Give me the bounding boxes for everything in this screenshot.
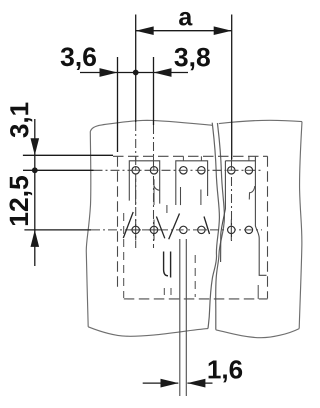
contact box 3 right edge with funnel jog and foot: [255, 157, 266, 276]
pad center dash bottom 4: [198, 229, 204, 231]
dimension 3,1 arrow down: [31, 138, 40, 155]
contact box 3 left edge with funnel jog: [221, 161, 226, 262]
pad center dash top 2: [151, 167, 157, 171]
connector housing dashed outline right edge: [267, 156, 269, 298]
contact box 1: [129, 161, 159, 204]
center line pad column 1: [135, 122, 137, 248]
pad bottom 6: [245, 226, 252, 233]
extension line y155: [23, 154, 113, 156]
pad top 6: [245, 167, 252, 174]
dimension 3,8 extension line: [153, 57, 155, 125]
inner dashed vertical mid b: [170, 288, 172, 299]
extension line y230: [24, 229, 91, 231]
pad bottom 5: [228, 226, 235, 233]
dimension 1,6 arrow right: [187, 379, 205, 388]
dimension 3,1 label: [10, 103, 32, 138]
pad center dash bottom 3: [180, 229, 183, 231]
inner dashed vertical mid a: [163, 288, 165, 299]
dimension 12,5 arrow up: [31, 230, 40, 247]
slot line below pad2 with hook: [154, 179, 160, 205]
slot line below pad4: [200, 190, 202, 206]
connector housing dashed outline left edge: [117, 156, 119, 291]
inner dashed vertical pos2: [194, 255, 196, 297]
dimension dot at column 1: [133, 70, 139, 76]
dimension 1,6 line right: [187, 382, 212, 384]
clamp diagonal pos2 right: [204, 217, 210, 235]
clamp diagonal pos1 left: [123, 212, 133, 238]
dimension a line: [136, 30, 232, 32]
pad bottom 4: [198, 226, 205, 233]
tick outline-to-box pad6: [248, 156, 250, 161]
left dimension vertical line: [34, 119, 36, 266]
clamp diagonal V right leg: [169, 214, 180, 240]
crosshair pad bottom 2 horizontal: [149, 229, 159, 231]
pad bottom 3: [180, 226, 187, 233]
dimension 3,6 extension line: [117, 57, 119, 152]
tick outline-to-box pad2: [153, 156, 155, 161]
extension line y170: [23, 169, 94, 171]
crosshair pad bottom 1 horizontal: [131, 229, 142, 231]
pin blade line right 1,6 feature: [185, 239, 187, 396]
pad top 1: [132, 167, 139, 174]
paper sheet left piece left edge: [86, 132, 91, 327]
break line left tear: [208, 123, 219, 329]
dimension a left extension line: [135, 15, 137, 123]
break line right tear: [216, 123, 225, 330]
paper sheet left piece bottom edge: [88, 327, 208, 336]
center line row 2 horizontal: [91, 229, 262, 231]
pad top 4: [198, 167, 205, 174]
pad center dash top 6: [246, 169, 252, 171]
slot hook below pad6: [249, 186, 255, 200]
dimension 12,5 label: [9, 176, 32, 225]
dimension a label: [179, 12, 192, 26]
pad bottom 2: [150, 226, 157, 233]
pad center dash top 4: [198, 169, 204, 171]
dimension 1,6 label: [209, 360, 243, 382]
pad center dash top 5: [228, 167, 234, 171]
tick outline-to-box pad5: [231, 156, 233, 161]
center line row 1 horizontal: [94, 169, 263, 171]
dimension dot left: [32, 167, 38, 173]
inner dash right piece bottom: [257, 285, 259, 299]
dimension a arrow left: [136, 26, 154, 35]
pad top 5: [228, 167, 235, 174]
crosshair pad bottom 5 vertical: [230, 220, 232, 241]
dimension 1,6 line left: [143, 382, 179, 384]
dimension a arrow right: [214, 26, 232, 35]
pin blade line left 1,6 feature: [179, 239, 181, 396]
pad top 3: [180, 167, 187, 174]
U clamp feature: [164, 252, 171, 278]
connector housing dashed outline bottom edge: [124, 298, 268, 300]
dimension 3,8 label: [174, 48, 209, 71]
pad center dash bottom 6: [246, 229, 252, 231]
contact box 2: [176, 161, 208, 205]
paper sheet left piece top edge: [90, 120, 212, 131]
pad center dash top 1: [133, 167, 139, 171]
dimension 1,6 arrow left: [161, 379, 179, 388]
dimension 3,6 label: [61, 47, 96, 70]
connector housing dashed outline top edge: [113, 155, 268, 157]
dimension 3,6 3,8 line: [80, 72, 188, 74]
clamp diagonal V left leg: [156, 217, 164, 239]
crosshair pad bottom 1 vertical: [135, 220, 137, 241]
pad center dash top 3: [180, 169, 186, 171]
contact box 3 top edge: [225, 160, 255, 162]
dimension a right extension line: [231, 15, 233, 160]
inner dashed vertical left: [123, 213, 125, 298]
tick outline-to-box pad1: [135, 156, 137, 161]
slot line pos3 short: [180, 187, 182, 205]
dimension 3,8 arrow: [154, 68, 172, 77]
pad top 2: [150, 167, 157, 174]
tick outline-to-box pad3: [182, 156, 184, 161]
paper sheet right piece top edge: [219, 120, 302, 123]
pad bottom 1: [132, 226, 139, 233]
center line pad column 2: [153, 125, 155, 248]
slot line below pad1: [135, 179, 137, 205]
tick outline-to-box pad4: [200, 156, 202, 161]
center line pad column 5: [231, 160, 233, 241]
dimension 3,6 arrow: [100, 68, 118, 77]
paper sheet right piece bottom edge: [216, 329, 299, 338]
paper sheet right piece right edge: [299, 122, 302, 329]
funnel center dash pos1-2: [166, 205, 168, 213]
crosshair pad bottom 2 vertical: [153, 220, 155, 241]
